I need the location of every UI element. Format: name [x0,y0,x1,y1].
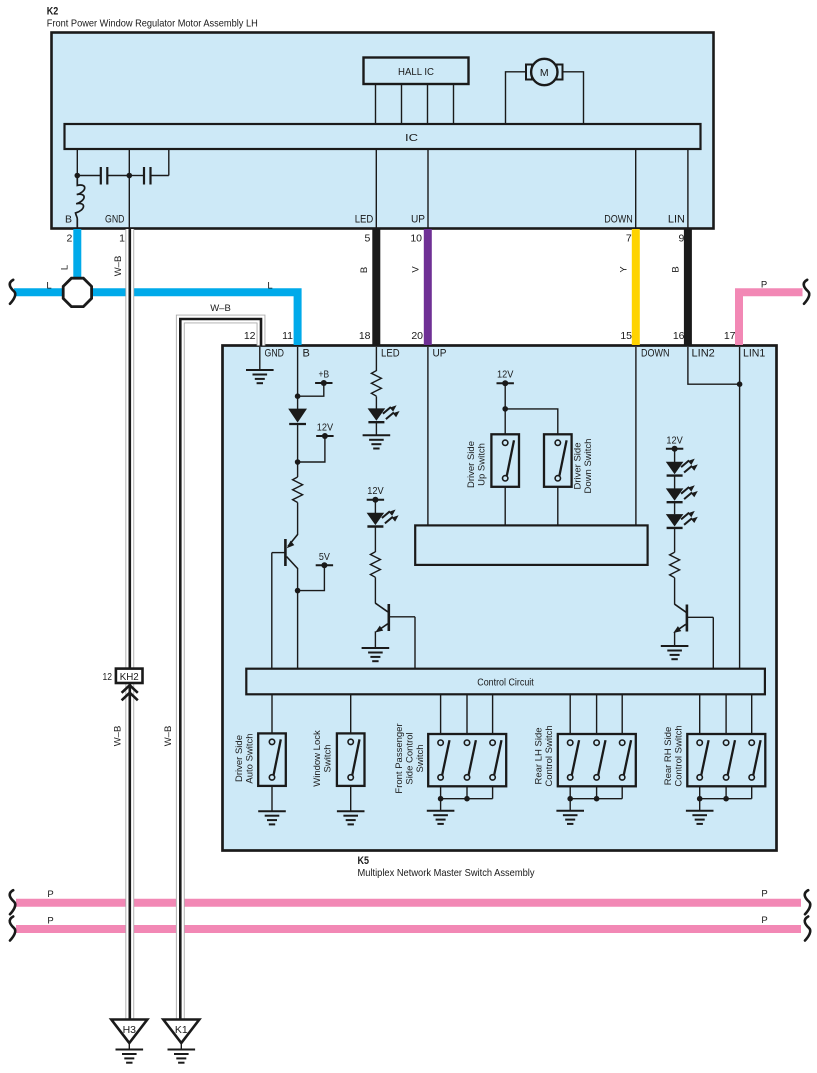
svg-text:HALL IC: HALL IC [398,66,434,78]
break symbol left of L wire [10,280,16,304]
wire Q1 collector down [297,568,299,670]
svg-text:LIN1: LIN1 [743,348,765,360]
wire Q1 base down [271,553,273,670]
svg-text:Driver SideAuto Switch: Driver SideAuto Switch [234,733,256,783]
svg-text:12V: 12V [317,422,333,434]
motor M1 terminal left [526,65,532,80]
wire front passenger c down [492,786,494,798]
node B junction [127,173,133,179]
wire rear RH to ground [699,799,701,811]
ground G9 rear RH [686,811,714,824]
svg-text:P: P [761,279,767,290]
wire B chain mid [297,424,299,477]
wire rear LH to ground [569,799,571,811]
wire LED3 to LED4 [674,476,676,488]
wire Q2 emitter to ground [374,631,376,648]
wire DOWN internal K2 [635,149,637,229]
svg-text:W–B: W–B [163,726,174,747]
break symbol bus1 left [10,890,16,914]
wire LED5 to R4 [674,529,676,553]
svg-text:17: 17 [724,330,736,342]
wire LIN2 internal [688,347,740,384]
connector KH2 chevron [122,685,138,700]
svg-text:M: M [540,67,549,79]
wire bar to front passenger b [466,694,468,734]
node A junction [75,173,81,179]
svg-text:W–B: W–B [113,726,124,747]
svg-text:Multiplex Network Master Switc: Multiplex Network Master Switch Assembly [358,867,536,879]
node LIN junction [737,381,743,387]
svg-text:LED: LED [381,348,400,360]
terminal 12V right led [666,446,683,452]
svg-text:K2: K2 [47,6,59,18]
LED LED5 [666,511,698,528]
svg-text:L: L [267,280,272,291]
svg-text:LIN2: LIN2 [692,348,715,360]
node front passenger a [438,796,444,802]
transistor Q1 [272,535,298,569]
wire LED internal K2 [375,149,377,229]
LED LED1 [368,405,400,422]
node rear LH b [594,796,600,802]
svg-text:P: P [761,915,767,926]
svg-text:10: 10 [410,233,422,245]
wire R4 to Q3 [674,578,676,605]
wire bar to front passenger a [440,694,442,734]
svg-text:W–B: W–B [210,303,231,314]
wire P pink bus 2 [16,925,801,933]
ground G1 pin12 [246,370,274,383]
wire P pink bus 1 [16,899,801,907]
wire rear RH c down [751,786,753,798]
switch S4 window lock [337,733,365,786]
svg-text:Y: Y [619,266,630,273]
svg-text:L: L [60,265,71,270]
svg-text:12: 12 [244,330,256,342]
break symbol right of P wire [804,280,810,304]
comparator box [415,525,647,565]
capacitor C2 [129,149,169,185]
node +B junction [295,393,301,399]
svg-text:L: L [46,280,51,291]
svg-text:P: P [761,889,767,900]
wire B chain upper [297,347,299,409]
svg-text:2: 2 [66,233,72,245]
svg-text:P: P [47,889,53,900]
wire down switch to box [557,487,559,525]
svg-text:UP: UP [411,213,425,225]
wire R1 to Q1 [297,503,299,536]
block K5 body [223,346,777,851]
svg-text:11: 11 [282,330,293,342]
wire bar to window lock switch [350,694,352,733]
wire L blue horizontal left [14,288,65,296]
wire rear RH a down [699,786,701,798]
svg-text:Control Circuit: Control Circuit [477,677,534,689]
wire K1 stub [180,1043,182,1050]
wire auto switch to ground [271,786,273,811]
wire GND internal K2 [128,149,130,229]
wire Q3 emitter to ground [674,632,676,646]
svg-text:K1: K1 [175,1024,188,1036]
svg-text:KH2: KH2 [120,672,139,683]
svg-text:12: 12 [103,671,113,683]
inductor L1 [76,176,85,229]
resistor R4 [670,552,680,578]
svg-text:GND: GND [265,348,285,360]
wire bar to rear LH b [596,694,598,734]
svg-text:Rear LH SideControl Switch: Rear LH SideControl Switch [533,725,555,786]
wire Y yellow stub pin7-15 [632,229,640,345]
node rear RH a [697,796,703,802]
wire B black stub pin9-16 [684,229,692,345]
wire Q2 base down [414,617,416,670]
switch S3 driver side auto [258,733,286,786]
svg-text:V: V [411,266,422,273]
wire LED1 to ground [375,423,377,436]
node 5V junction [295,588,301,594]
wire +B branch [298,383,324,396]
svg-text:B: B [671,266,682,272]
svg-text:20: 20 [411,330,423,342]
svg-text:B: B [65,213,72,225]
svg-text:GND: GND [105,213,125,225]
svg-text:LIN: LIN [668,213,685,225]
ground G6 window lock [337,811,365,824]
wire rear LH common [570,798,622,800]
svg-text:1: 1 [119,233,125,245]
node rear LH a [567,796,573,802]
ground G7 front passenger [427,811,455,824]
terminal 5V [316,562,333,568]
ground connector H3 [111,1020,147,1044]
ground G8 rear LH [556,811,584,824]
wire front passenger b down [466,786,468,798]
wire W-B 2 from pin12 to K1 [180,319,261,1020]
svg-text:Driver SideDown Switch: Driver SideDown Switch [572,439,594,494]
wire DOWN internal K5 [635,347,637,525]
break symbol bus1 right [805,890,811,914]
svg-text:B: B [303,348,310,360]
wire pin18 to R2 [375,347,377,371]
LED LED2 [367,510,399,527]
terminal +B [315,380,332,386]
wire up switch to box [504,487,506,525]
svg-text:9: 9 [679,233,685,245]
wire bar to rear RH c [751,694,753,734]
ground G3 Q2 [362,648,390,661]
wire 5V branch [298,565,325,590]
switch S2 driver side down [544,434,572,487]
ground G11 K1 [168,1050,196,1063]
motor M1 [531,59,557,85]
svg-text:LED: LED [355,213,374,225]
svg-text:Driver SideUp Switch: Driver SideUp Switch [466,441,488,488]
wire front passenger common [441,798,493,800]
transistor Q2 [375,603,415,632]
node front passenger b [464,796,470,802]
wire L blue horizontal right [91,292,298,345]
block K2 body [52,33,714,229]
wire 12V to up switch [504,383,506,434]
wire branch to down switch [505,409,558,434]
wire rear LH b down [596,786,598,798]
ground G2 LED1 [363,435,391,448]
wire bar to rear RH a [699,694,701,734]
wire R3 to Q2 [374,577,376,603]
wire 12V to LED2 [374,500,376,513]
control circuit bar [246,669,765,695]
svg-text:15: 15 [620,330,632,342]
wire front passenger a down [440,786,442,798]
svg-text:IC: IC [405,132,419,144]
svg-text:W–B: W–B [113,256,124,277]
connector octagon J1 [63,278,91,306]
wire window lock to ground [350,786,352,811]
wire HALLIC pin1 [375,84,377,124]
resistor R2 [371,371,381,397]
wire motor right lead [562,72,584,124]
wire rear LH c down [621,786,623,798]
wire L blue stub pin2 [73,229,81,281]
svg-text:5: 5 [364,233,370,245]
wire front passenger to ground [440,799,442,811]
svg-text:Rear RH SideControl Switch: Rear RH SideControl Switch [663,725,685,786]
capacitor C1 [77,167,129,185]
wire bar to auto switch [271,694,273,733]
transistor Q3 [673,604,713,633]
terminal 12V driver switches [497,380,514,386]
ground G10 H3 [116,1050,144,1063]
LED LED4 [666,485,698,502]
diode D1 [288,409,307,424]
wire R2 to LED1 [375,396,377,408]
svg-text:Front Power Window Regulator M: Front Power Window Regulator Motor Assem… [47,18,258,30]
switch S5 front passenger side control [428,734,506,786]
wire bar to front passenger c [492,694,494,734]
svg-text:B: B [359,267,370,273]
HALL IC box [364,58,469,85]
wire LIN1 internal [739,347,741,670]
wire B black stub pin5-18 [372,229,380,345]
connector KH2 [116,669,143,683]
terminal 12V mid led [367,497,384,503]
wire P pink LIN1 [739,292,803,345]
wire V purple stub pin10-20 [424,229,432,345]
node 12V junction [295,459,301,465]
break symbol bus2 right [805,917,811,941]
switch S1 driver side up [491,434,519,487]
ground G5 auto switch [258,811,286,824]
wire 12V branch [298,436,325,462]
wire W-B 1 from pin1 to H3 [125,229,134,1020]
wire Q3 base down [712,617,714,670]
resistor R3 [370,552,380,578]
LED LED3 [666,459,698,476]
wire rear RH common [700,798,752,800]
switch S6 rear LH side control [558,734,636,786]
svg-text:12V: 12V [666,434,682,446]
switch S7 rear RH side control [687,734,765,786]
node driver switch junction [502,406,508,412]
motor M1 terminal right [557,65,563,80]
svg-text:P: P [47,916,53,927]
wire UP internal K5 [427,347,429,525]
svg-text:5V: 5V [319,551,330,563]
wire LED4 to LED5 [674,503,676,515]
wire H3 stub [128,1043,130,1050]
svg-text:K5: K5 [358,855,370,867]
svg-text:12V: 12V [367,485,383,497]
wire 12V to LED3 [674,449,676,462]
svg-text:12V: 12V [497,369,513,381]
svg-text:+B: +B [319,369,330,381]
wire pin12 to ground [259,347,261,370]
terminal 12V [316,433,333,439]
wire LED2 to R3 [374,527,376,552]
wire bar to rear LH a [569,694,571,734]
wire bar to rear RH b [725,694,727,734]
ground connector K1 [163,1020,199,1044]
wire HALLIC pin2 [401,84,403,124]
break symbol bus2 left [10,917,16,941]
ground G4 Q3 [661,646,689,659]
svg-text:DOWN: DOWN [604,213,633,225]
node rear RH b [723,796,729,802]
wire motor left lead [506,72,528,124]
svg-text:UP: UP [433,348,447,360]
wire IC to node A [76,149,78,176]
wire UP internal K2 [427,149,429,229]
wire HALLIC pin4 [453,84,455,124]
svg-text:16: 16 [673,330,685,342]
wire bar to rear LH c [621,694,623,734]
wire rear LH a down [569,786,571,798]
svg-text:18: 18 [359,330,371,342]
svg-text:7: 7 [626,233,632,245]
wire LIN internal K2 [687,149,689,229]
svg-text:H3: H3 [123,1024,137,1036]
svg-text:DOWN: DOWN [641,348,670,360]
resistor R1 [293,477,303,503]
wire HALLIC pin3 [427,84,429,124]
wire rear RH b down [725,786,727,798]
IC bar U-IC [65,124,701,149]
